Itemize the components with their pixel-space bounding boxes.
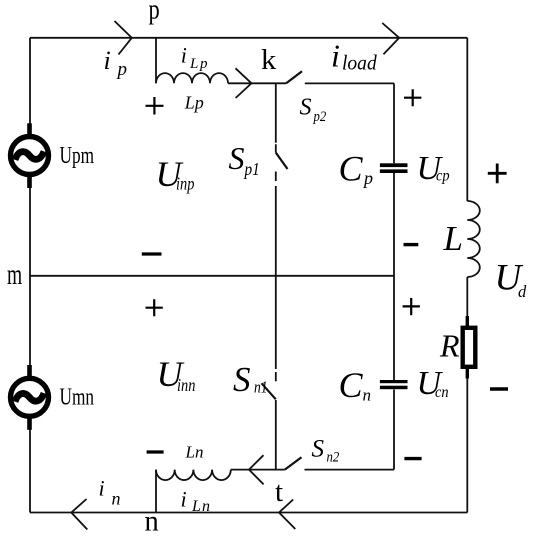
svg-text:i: i [99, 475, 105, 500]
svg-text:n: n [202, 498, 210, 515]
minus sign Cp [404, 243, 419, 246]
svg-text:p: p [116, 59, 128, 80]
wire Cn branch lower [393, 390, 395, 470]
svg-text:S: S [229, 140, 245, 176]
svg-text:Umn: Umn [60, 383, 95, 411]
svg-text:d: d [518, 282, 527, 301]
minus sign U_inp [142, 252, 162, 255]
svg-text:S: S [312, 436, 325, 463]
svg-text:k: k [261, 45, 276, 76]
svg-text:n1: n1 [254, 378, 268, 397]
wire Lp stub from p node [155, 38, 157, 84]
plus sign Cn [403, 298, 420, 315]
svg-text:p2: p2 [313, 109, 327, 125]
switch Sp2 [286, 71, 302, 83]
arrow at node t on bottom rail [279, 500, 295, 530]
svg-text:L: L [189, 56, 198, 72]
wire left rail [29, 38, 31, 513]
inductor Ln [156, 470, 231, 481]
svg-text:p: p [199, 56, 208, 72]
svg-text:i: i [181, 43, 187, 68]
arrow i_Ln on Ln wire [249, 455, 264, 484]
switch Sp1 [276, 153, 288, 169]
svg-text:i: i [181, 486, 187, 511]
svg-text:Ln: Ln [185, 443, 204, 462]
svg-text:p: p [362, 168, 373, 188]
resistor R [463, 316, 476, 379]
svg-text:i: i [104, 46, 111, 75]
plus sign Cp [404, 89, 421, 106]
svg-text:Lp: Lp [184, 93, 204, 113]
source Upm [11, 123, 49, 188]
svg-text:L: L [191, 498, 201, 515]
svg-text:n: n [112, 489, 121, 509]
svg-text:S: S [300, 94, 312, 120]
inductor Lp [156, 73, 228, 83]
arrow i_Lp after inductor Lp [236, 68, 252, 98]
svg-text:load: load [342, 52, 378, 75]
svg-text:i: i [331, 37, 340, 73]
svg-text:L: L [443, 219, 463, 258]
plus sign load Ud [488, 164, 507, 184]
svg-text:inp: inp [176, 173, 194, 194]
wire Sn1 upper tick [275, 372, 277, 381]
inductor L [467, 201, 480, 277]
wire Cp branch upper [393, 83, 395, 163]
source Umn [11, 365, 49, 430]
minus sign load Ud [490, 387, 508, 391]
plus sign U_inn [146, 299, 163, 316]
wire switch branch Sn1 to t [275, 400, 277, 470]
wire Lp to node k [228, 82, 286, 84]
svg-text:m: m [7, 258, 22, 291]
capacitor Cn [380, 380, 408, 389]
arrow i_load on top rail [382, 23, 399, 54]
svg-text:R: R [439, 328, 460, 364]
wire middle rail m [30, 275, 394, 277]
switch Sn2 [285, 457, 302, 469]
wire Ln stub to bottom rail [155, 470, 157, 513]
wire Ln to t junction [231, 469, 285, 471]
svg-text:p1: p1 [244, 159, 260, 179]
minus sign Ln branch [147, 450, 164, 453]
svg-text:n: n [145, 505, 160, 538]
wire bottom rail n [30, 512, 467, 514]
svg-text:Upm: Upm [60, 141, 95, 169]
plus sign Lp branch [146, 97, 164, 115]
wire Sp2 to Cp top [305, 82, 394, 84]
svg-text:inn: inn [177, 374, 195, 395]
svg-text:S: S [233, 360, 251, 399]
svg-text:C: C [339, 149, 364, 189]
arrow i_p on top rail [115, 21, 132, 55]
wire top rail p-k [30, 37, 467, 39]
arrow i_n on bottom rail [71, 499, 87, 530]
wire right rail upper segment [466, 38, 468, 201]
switch Sn1 [262, 383, 276, 399]
wire switch branch Sp1 to Sn1 [275, 172, 277, 370]
wire Cn bottom to Sn2 [305, 469, 395, 471]
svg-text:t: t [275, 476, 283, 508]
minus sign Cn [404, 457, 421, 460]
wire right rail between L and R [466, 277, 468, 318]
wire switch branch k to Sp1 [275, 83, 277, 152]
svg-text:C: C [339, 365, 364, 405]
svg-text:n2: n2 [327, 450, 340, 466]
svg-text:n: n [363, 386, 372, 405]
svg-text:p: p [149, 0, 160, 25]
svg-text:cp: cp [436, 167, 450, 185]
svg-text:cn: cn [435, 383, 449, 401]
wire Cp branch middle [393, 173, 395, 380]
wire right rail lower segment [466, 377, 468, 513]
capacitor Cp [380, 163, 408, 173]
